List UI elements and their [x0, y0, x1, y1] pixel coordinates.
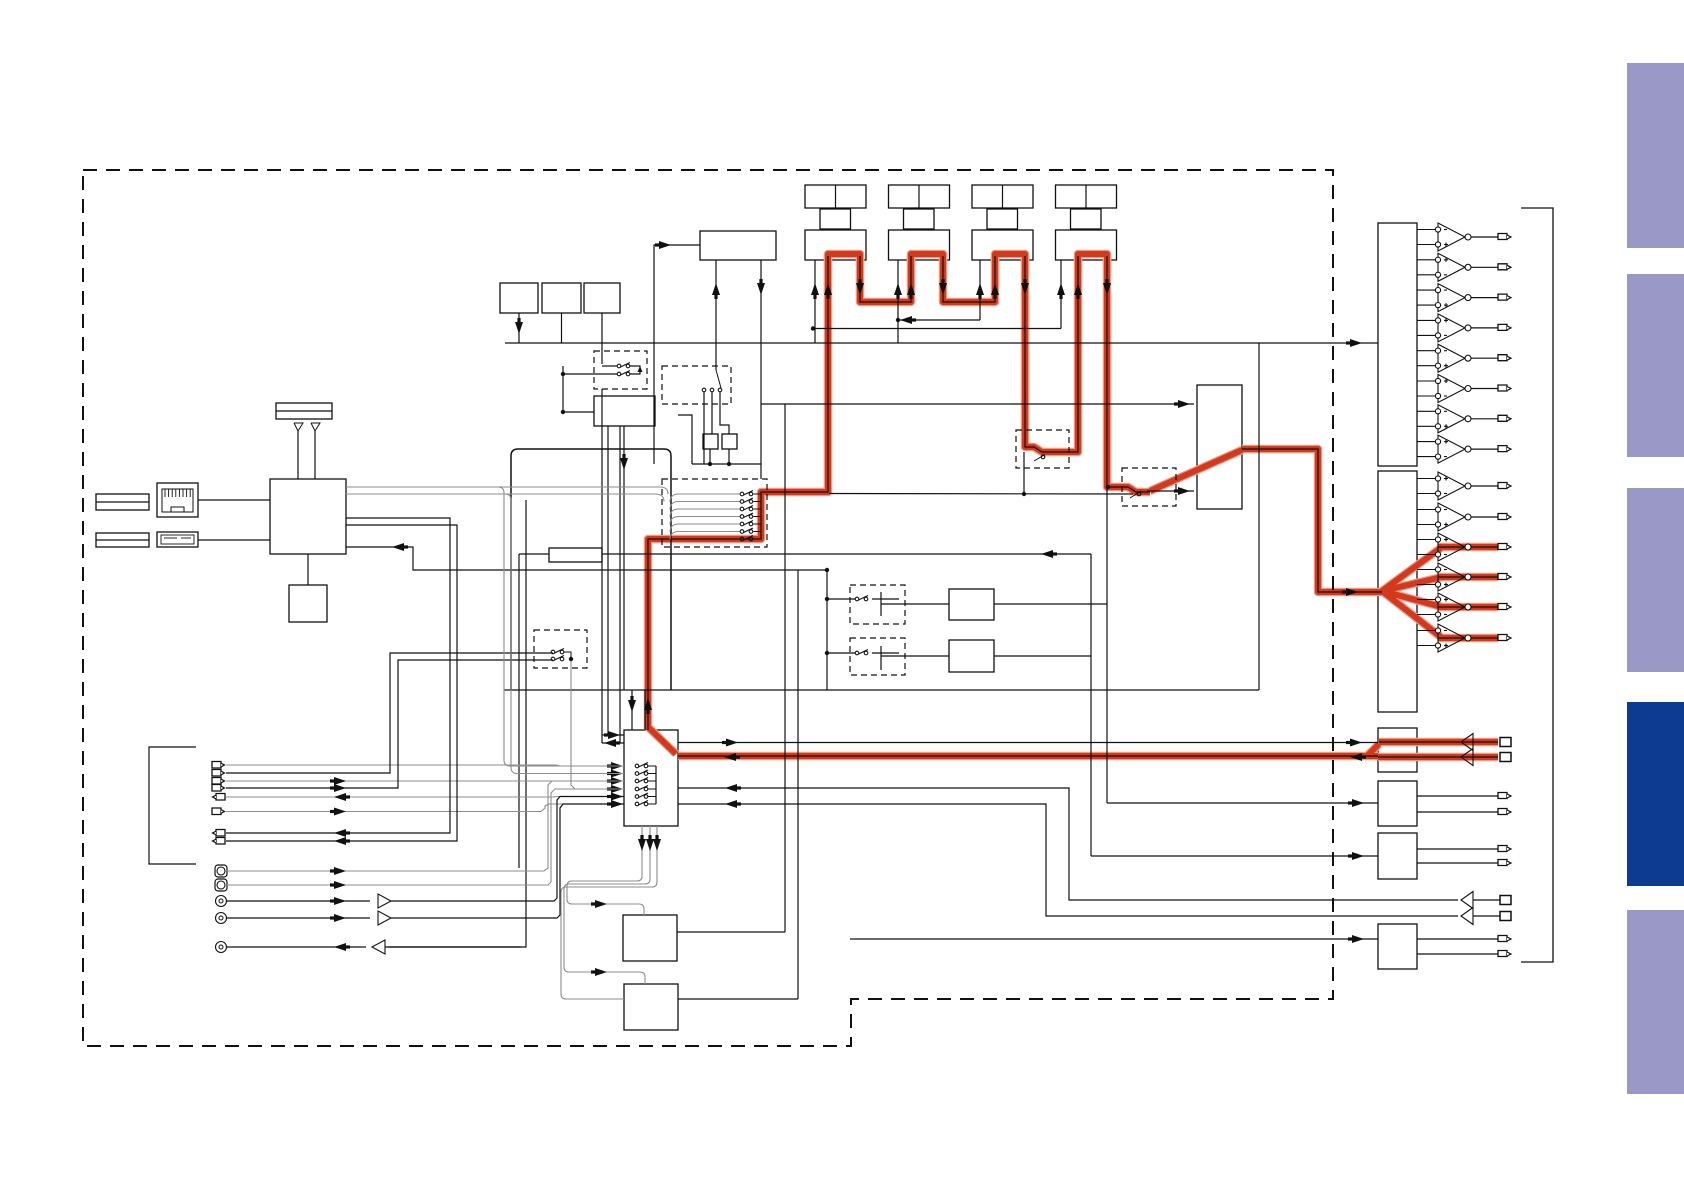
DA4 row b [1417, 811, 1498, 813]
connector IN 2 [212, 770, 221, 777]
red highlighted path [1150, 450, 1242, 491]
junction dot [825, 568, 829, 572]
DA1 output plug [1498, 355, 1507, 361]
wire bus A horizontal [505, 342, 1378, 344]
arrow round 885 [334, 881, 346, 889]
red highlighted path [1107, 256, 1150, 492]
junction dot [1022, 492, 1026, 496]
box below CPU [289, 585, 327, 622]
connector XLR 1 [216, 896, 227, 907]
wire corridor 519 [518, 554, 520, 868]
arrow row 781 [334, 777, 346, 785]
red highlighted path [943, 256, 995, 302]
wire osc2 out [678, 998, 798, 1000]
arrow osc2 in [595, 968, 607, 976]
RJ45 pin [168, 489, 170, 497]
wire cascade stub [754, 516, 762, 518]
red highlighted path [1242, 449, 1382, 592]
switch cascade [740, 530, 744, 534]
wire drop 1091 [1090, 554, 1092, 856]
arrow on red leg [1074, 283, 1082, 295]
red highlighted path [995, 254, 1025, 262]
wire wclk pair b [619, 426, 621, 743]
DA6 row a [1417, 938, 1498, 940]
dashed fader box 2 [1122, 468, 1176, 506]
DA2 output driver [1417, 509, 1435, 511]
wire drop 1107 [1106, 487, 1108, 803]
arrow 2tr return b [725, 800, 737, 808]
channel strip 1 encoder [820, 209, 851, 229]
switch contact [1137, 492, 1141, 496]
wire DA4 feed [1107, 802, 1378, 804]
wire DA6 feed [850, 938, 1378, 940]
rotary contact 2 [710, 388, 714, 392]
red highlighted path halo [828, 254, 860, 262]
wire wclk riser 602 [601, 343, 603, 364]
dashed outer console boundary [83, 170, 1333, 1046]
wire stair 692 [678, 415, 692, 464]
junction dot [569, 657, 573, 661]
wire DSP leg down [760, 260, 762, 479]
arrow selector row [611, 770, 623, 778]
switch selector row [635, 787, 639, 791]
arrow config1 [515, 322, 523, 334]
box level resistor [549, 548, 602, 562]
arrow selector row [611, 777, 623, 785]
wire junction vertical 563 [562, 366, 564, 412]
bar connector 1 [96, 494, 149, 510]
DA2 output plug [1498, 635, 1507, 641]
red highlighted path [648, 256, 828, 730]
wire selector common [655, 766, 657, 804]
sidebar tab 5 [1627, 910, 1684, 1094]
arrow on red leg [1021, 283, 1029, 295]
arrow DSP leg up [712, 283, 720, 295]
DA5 row b [1417, 862, 1498, 864]
connector IN 4 [212, 785, 221, 792]
wire insert B link [872, 652, 899, 654]
wire round row 947 b [385, 946, 521, 948]
arrow DSP leg down [757, 283, 765, 295]
junction dot [825, 651, 829, 655]
arrow strip4 leg [1057, 283, 1065, 295]
wire bus box B out [994, 655, 1091, 657]
wire round row 901 b [391, 797, 624, 902]
wire selector common stub [648, 796, 656, 798]
wire bus B vertical [1258, 343, 1260, 690]
arrow row 833 [334, 829, 346, 837]
junction dot [825, 597, 829, 601]
switch cascade [740, 515, 744, 519]
red highlighted path [1378, 742, 1498, 757]
red highlighted path halo [1242, 449, 1382, 592]
switch cascade red row [740, 537, 744, 541]
DA1 output driver [1417, 410, 1435, 412]
wire selector common stub [648, 765, 656, 767]
red highlighted path [1438, 547, 1498, 638]
arrow on red leg [1103, 283, 1111, 295]
DA1 output driver [1417, 319, 1435, 321]
wire corridor 526 [525, 500, 527, 942]
switch cascade [740, 522, 744, 526]
DA4 row a [1417, 795, 1498, 797]
sidebar tab 4 [1627, 702, 1684, 886]
arrow strip2 leg [894, 283, 902, 295]
wire CPU serial 2 [346, 494, 664, 502]
wire fader switch line [829, 493, 1133, 496]
wire plug row 812 [226, 804, 624, 812]
wire selector common stub [648, 803, 656, 805]
junction dot [1106, 485, 1110, 489]
wire 2tr return b [678, 804, 1458, 916]
red highlighted path halo [1438, 547, 1498, 638]
box DA out 5 [1378, 833, 1417, 879]
arrow on red riser [644, 698, 652, 710]
red highlighted path [678, 753, 1378, 759]
wire round row 871 [227, 781, 624, 871]
2tr plug 1 [1500, 896, 1511, 905]
RJ45 pin [171, 489, 173, 497]
box osc 2 [624, 984, 678, 1030]
wire selector drop A [567, 826, 644, 915]
arrow on red leg [824, 283, 832, 295]
wire rotary c3 drop [720, 392, 729, 434]
switch cascade [740, 500, 744, 504]
DA1 output plug [1498, 446, 1507, 452]
box monitor selector [624, 730, 678, 826]
arrow DA5 feed [1352, 852, 1364, 860]
rotary contact 3 [718, 388, 722, 392]
red highlighted path halo [1378, 742, 1498, 757]
dashed insert B box [850, 638, 905, 675]
wire CPU grey a [346, 487, 624, 766]
sidebar tab 1 [1627, 63, 1684, 248]
wire resistor tap [519, 553, 549, 555]
red highlighted path halo [1025, 256, 1078, 452]
arrow word-clock drop [620, 458, 628, 470]
arrow row 841 [334, 837, 346, 845]
RJ45 pin [182, 489, 184, 497]
connector IN 3 [212, 778, 221, 785]
connector XLR 2 [216, 913, 227, 924]
dashed word clock box [594, 351, 647, 389]
antenna symbol R [311, 423, 320, 431]
DA1 output plug [1498, 415, 1507, 421]
red highlighted path [911, 254, 943, 262]
box config 3 [584, 283, 620, 313]
wire bus B horizontal [504, 689, 1259, 691]
red highlighted path halo [943, 256, 995, 302]
arrow wclk sel in [608, 731, 620, 739]
switch clock row2 [551, 657, 555, 661]
wire core on red path [1107, 256, 1150, 492]
wire CPU rx line [346, 547, 827, 570]
dashed cascade IO box [662, 479, 767, 547]
channel strip 2 encoder [904, 209, 935, 229]
red highlighted path halo [995, 254, 1025, 262]
wire display to antenna L [297, 431, 299, 479]
red highlighted path [648, 727, 676, 754]
red highlighted path halo [911, 254, 943, 262]
box DA converter 2 [1378, 471, 1417, 712]
wire meter riser 798 [797, 570, 799, 999]
DA1 output driver [1417, 229, 1435, 231]
DA2 output driver [1417, 630, 1435, 632]
junction dot [811, 326, 815, 330]
dashed clock source box [534, 630, 587, 668]
arrow round 871 [334, 867, 346, 875]
switch wclk row1 [617, 364, 621, 368]
wire term1 drop [709, 449, 711, 464]
output group bracket [1521, 208, 1553, 962]
wire selector drop C [561, 826, 657, 999]
arrow into patch box [1178, 487, 1190, 495]
arrow row 788 [334, 784, 346, 792]
wire riser to DSP wide box [654, 245, 700, 343]
wire insert A tap [827, 598, 855, 600]
wire bus box A out [994, 603, 1107, 605]
DA6 plug b [1498, 951, 1507, 957]
wire fader switch drop [1023, 452, 1025, 494]
arrow strip1 leg [811, 283, 819, 295]
switch selector row [635, 764, 639, 768]
wire selector common stub [648, 773, 656, 775]
wire DSP leg up [715, 260, 717, 370]
arrow DA4 feed [1352, 799, 1364, 807]
arrow osc1 in [595, 900, 607, 908]
switch cascade [740, 507, 744, 511]
connector OUT 3 [216, 838, 225, 845]
wire plug row 765 [226, 765, 624, 766]
red highlighted path halo [678, 752, 1378, 761]
talkback amp 1 [378, 894, 391, 908]
wire wclk row out [630, 366, 640, 374]
box bus A [949, 589, 994, 620]
box bus B [949, 640, 994, 672]
wire insert A T [880, 592, 882, 616]
wire insert A link [872, 598, 899, 600]
wire display to antenna R [314, 431, 316, 479]
red highlighted path [860, 256, 911, 302]
box DA monitor [1378, 728, 1417, 772]
red highlighted path [1366, 744, 1379, 757]
wire strip1 leg [814, 260, 816, 343]
arrow round 901 [334, 897, 346, 905]
junction dot [561, 372, 565, 376]
wire rotary c2 drop [711, 392, 713, 434]
DA4 plug a [1498, 793, 1507, 799]
arrow on red monitor bus [1350, 753, 1362, 761]
wire wclk to selector out [602, 742, 624, 744]
arrow on red leg [856, 283, 864, 295]
wire core on red path [648, 256, 828, 730]
DA1 output driver [1417, 380, 1435, 382]
2tr amp row 1 [1461, 892, 1473, 909]
wire round row 918 b [391, 804, 624, 918]
wire term bus [692, 463, 761, 465]
wire strip1-4 link [813, 328, 1061, 330]
channel strip 3 encoder [987, 209, 1018, 229]
DA5 plug b [1498, 860, 1507, 866]
wire wclk row1 left [602, 365, 617, 367]
box term 1 [703, 434, 718, 449]
wire wclk drop 602 [601, 389, 603, 743]
wire wclk row2 left [563, 373, 617, 375]
wire cascade row feed [670, 502, 740, 510]
connector IN 5 [212, 808, 221, 815]
monitor plug 1 [1500, 738, 1511, 747]
DA1 output plug [1498, 324, 1507, 330]
switch selector row [635, 779, 639, 783]
wire cascade stub [754, 531, 762, 533]
wire config3 drop [601, 313, 603, 343]
box DA out 4 [1378, 781, 1417, 826]
arrow strip3 leg [976, 283, 984, 295]
switch selector row [635, 772, 639, 776]
RJ45 pin [164, 489, 166, 497]
connector combo 1 [215, 865, 227, 877]
wire cascade row feed [670, 517, 740, 525]
wire cascade stub [754, 501, 762, 503]
wire word-clock drop [623, 426, 625, 690]
DA1 output driver [1417, 350, 1435, 352]
switch selector row [635, 795, 639, 799]
red highlighted path [828, 254, 860, 262]
DA1 output driver [1417, 289, 1435, 291]
arrow selector drop C [653, 839, 661, 851]
wire core on red path [860, 256, 911, 302]
red highlighted path halo [1150, 450, 1242, 491]
arrow on red leg [907, 283, 915, 295]
arrow into DA1 [1350, 339, 1362, 347]
box osc 1 [623, 915, 677, 961]
wire core on red path [943, 256, 995, 302]
arrow row 797 [334, 793, 346, 801]
wire cascade stub [754, 508, 762, 510]
arrow into CPU [392, 543, 404, 551]
box DA converter 1 [1378, 223, 1417, 466]
arrow 2tr return a [725, 784, 737, 792]
wire monitor out row [678, 742, 1378, 744]
DA2 output plug [1498, 514, 1507, 520]
wire to word-clock box [563, 411, 594, 413]
box config 2 [542, 283, 581, 313]
switch cascade [740, 492, 744, 496]
switch clock row1 [551, 650, 555, 654]
channel strip 3 head pair [972, 185, 1033, 208]
wire patch feed [761, 403, 1194, 405]
wire 2tr row 2 [1473, 915, 1500, 917]
wire cascade stub [754, 523, 762, 525]
wire bus box B in [881, 655, 949, 657]
DA2 output driver [1417, 599, 1435, 601]
wire phones return [388, 942, 526, 947]
wire CPU grey b [346, 494, 624, 774]
RJ45 pin [186, 489, 188, 497]
arrow selector row [611, 785, 623, 793]
wire core on red path [1242, 449, 1382, 592]
wire strip3 leg [979, 260, 981, 320]
DA1 output plug [1498, 385, 1507, 391]
wire cascade row feed [670, 509, 740, 517]
switch wclk row2 [617, 372, 621, 376]
wire strip4 leg [1060, 260, 1062, 329]
DA1 output driver [1417, 259, 1435, 261]
arrow selector drop B [646, 839, 654, 851]
DA2 output plug [1498, 483, 1507, 489]
power supply bracket [149, 747, 196, 864]
wire plug row 788 black [226, 660, 553, 788]
USB port [157, 532, 198, 547]
box DA out 6 [1378, 924, 1417, 969]
wire selector feed b [644, 690, 646, 730]
2tr amp row 2 [1461, 908, 1473, 925]
wire DA5 feed [1091, 855, 1378, 857]
sidebar tab 2 [1627, 274, 1684, 457]
connector OUT 1 [216, 794, 225, 801]
wire insert B T [880, 646, 882, 670]
wire round row 947 [227, 946, 366, 948]
RJ45 jack [157, 483, 198, 517]
arrow on red leg [939, 283, 947, 295]
DA5 row a [1417, 848, 1498, 850]
DA6 plug a [1498, 936, 1507, 942]
RJ45 pin [189, 489, 191, 497]
channel strip 4 head pair [1056, 185, 1117, 208]
arrow wclk sel out [604, 739, 616, 747]
wire meter riser 785 [784, 404, 786, 932]
wire 2tr return a [678, 788, 1458, 900]
RJ45 notch [171, 507, 184, 512]
connector IN 1 [212, 762, 221, 769]
wire round row 885 [227, 789, 624, 885]
wire cascade row feed [670, 494, 740, 502]
DA5 plug a [1498, 846, 1507, 852]
wire strip2 leg [897, 260, 899, 343]
channel strip 2 processor [889, 230, 950, 260]
wire term2 drop [728, 449, 730, 464]
DA4 plug b [1498, 809, 1507, 815]
wire plug row 833 [226, 518, 450, 833]
wire plug row 781 [226, 780, 624, 782]
wire wclk to selector in [602, 734, 624, 736]
arrow monitor out row [726, 739, 738, 747]
red highlighted path [1025, 256, 1078, 452]
arrow selector row [611, 800, 623, 808]
arrow monitor out row 2 [1350, 739, 1362, 747]
wire junction 827 [826, 570, 828, 690]
monitor amp row 2 [1461, 749, 1473, 766]
wire USB to CPU [198, 539, 270, 541]
wire wclk pair a [607, 426, 609, 735]
DA2 output driver [1417, 569, 1435, 571]
wire round row 918 [227, 917, 370, 919]
DA1 output plug [1498, 234, 1507, 240]
wire selector common stub [648, 788, 656, 790]
wire core on red path [1378, 742, 1498, 757]
wire core on red path [678, 755, 1378, 757]
arrow DA2 red feed [1346, 588, 1358, 596]
channel strip 1 processor [805, 230, 866, 260]
DA2 output plug [1498, 574, 1507, 580]
connector XLR 3 [216, 942, 227, 953]
junction dot [727, 462, 731, 466]
arrow on red leg [991, 283, 999, 295]
wire plug row 773 black [226, 653, 553, 773]
junction dot [896, 318, 900, 322]
arrow selector drop A [638, 839, 646, 851]
connector OUT 2 [216, 830, 225, 837]
